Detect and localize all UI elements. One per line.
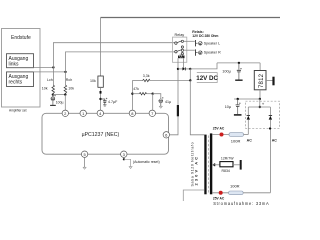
resistor 10k Rch (zigzag)	[64, 85, 67, 93]
node J junction dot	[189, 79, 191, 81]
box Endstufe (amplifier)	[2, 29, 41, 108]
wire secondary top to 100R	[212, 134, 229, 136]
relay box	[173, 37, 187, 62]
capacitor 100u left channel (electrolytic)	[51, 95, 56, 105]
junction dot E	[100, 91, 102, 94]
wire node A down to resistor Lch	[52, 67, 54, 85]
svg-text:Speaker L: Speaker L	[204, 41, 220, 45]
connector box Ausgang rechts	[7, 72, 34, 87]
node B junction dot	[64, 71, 66, 73]
transformer T1 secondary bar	[210, 133, 212, 194]
transformer T1 primary bar	[204, 135, 206, 195]
capacitor 10u	[236, 98, 241, 114]
svg-text:10k: 10k	[42, 87, 48, 91]
transformer center tap arrow	[213, 163, 216, 166]
svg-text:12V DC 280 Ohm: 12V DC 280 Ohm	[192, 34, 218, 38]
svg-text:25V AC: 25V AC	[213, 126, 225, 130]
wire tap to resistor 12R	[212, 164, 220, 166]
svg-text:Relay: Relay	[175, 33, 185, 37]
diode D1 (flyback)	[182, 67, 185, 70]
wire D1 to node dot3	[186, 68, 191, 70]
wire node K down to bridge plus node	[259, 99, 261, 107]
svg-text:Lch: Lch	[47, 78, 53, 82]
node K junction dot	[259, 98, 261, 100]
svg-text:10k: 10k	[90, 79, 96, 83]
svg-text:AC: AC	[247, 139, 253, 143]
svg-text:3,3k: 3,3k	[143, 74, 150, 78]
rectifier dashed box	[246, 101, 280, 128]
svg-text:100µ: 100µ	[222, 70, 231, 74]
pin 3	[121, 151, 127, 157]
node C junction dot	[52, 93, 54, 95]
wire top rail from pin4 branch to right edge	[101, 17, 281, 19]
wire node H to capacitor 47u	[153, 94, 161, 100]
ground for 4.7uF	[103, 105, 107, 106]
resistor 100R bottom	[229, 191, 244, 195]
wire regulator bottom to node K	[259, 90, 261, 99]
diode D3 right	[269, 107, 272, 193]
pin 4	[97, 110, 103, 116]
wire 12V rail to regulator	[217, 62, 260, 64]
ground for 10u	[234, 114, 242, 116]
wire resistor to pin 4	[100, 87, 102, 110]
node plus junction dot	[259, 106, 261, 108]
ground arrow (automatic reset)	[129, 167, 132, 169]
svg-text:links: links	[9, 61, 20, 67]
relay coil	[178, 54, 185, 58]
wire Ausgang links to node A	[34, 66, 54, 68]
svg-text:100µ: 100µ	[56, 101, 64, 105]
node dot on dashed edge	[269, 127, 271, 129]
wire pin 3 to automatic reset arrow	[123, 157, 131, 166]
wire regulator right tab	[266, 80, 273, 82]
ground for 100u smoothing	[235, 79, 242, 81]
svg-text:R834: R834	[222, 169, 230, 173]
svg-text:Speaker R: Speaker R	[204, 51, 221, 55]
svg-text:10µ: 10µ	[225, 105, 232, 109]
wire dot3 down to node J	[189, 69, 191, 81]
wire speaker L from relay	[184, 40, 195, 42]
capacitor 47u (electrolytic)	[159, 97, 164, 106]
svg-text:12V DC: 12V DC	[196, 75, 218, 82]
svg-text:AC: AC	[272, 139, 278, 143]
svg-text:(Automatic reset): (Automatic reset)	[133, 160, 160, 164]
node A junction dot	[52, 66, 54, 68]
wire dot1 to diode D1	[178, 68, 182, 70]
box 12V DC label	[197, 73, 217, 83]
svg-text:7812: 7812	[259, 73, 265, 88]
label Relais: 12V DC 280 Ohm	[192, 30, 218, 38]
node 25V AC bottom (red)	[219, 191, 223, 195]
wire node C to node D	[53, 94, 65, 96]
wire node J down to transformer primary	[190, 80, 204, 134]
node 25V AC top (red)	[220, 133, 224, 137]
node D junction dot	[64, 93, 66, 95]
capacitor 100u smoothing	[237, 62, 242, 80]
regulator 7812	[254, 63, 266, 90]
svg-text:12R/7W: 12R/7W	[221, 157, 234, 161]
svg-text:Rch: Rch	[66, 78, 72, 82]
resistor 47k (zigzag)	[132, 93, 152, 95]
wire node K to 10u tap	[234, 98, 260, 100]
wire node A2 down to resistor Rch	[65, 72, 67, 85]
node dot1 under coil	[177, 68, 179, 70]
wire node D to pin 2	[64, 95, 66, 110]
svg-text:100R: 100R	[230, 183, 240, 188]
svg-text:100R: 100R	[231, 138, 241, 143]
relay contact pole 2	[175, 49, 184, 55]
wire bridge top bar	[248, 106, 270, 108]
junction dot G on pin8 riser	[131, 93, 133, 95]
capacitor 4.7uF (electrolytic)	[103, 98, 107, 105]
wire 100R bottom to AC right riser	[243, 192, 270, 194]
wire pin 6 to relay coil riser	[170, 69, 179, 135]
junction dot F	[99, 98, 101, 100]
svg-text:Stromaufnahme: 33mA: Stromaufnahme: 33mA	[213, 201, 269, 206]
wire primary bottom lead	[183, 190, 204, 201]
bold tab mark	[272, 77, 274, 86]
connector box Ausgang links	[7, 54, 34, 68]
node dot3 junction	[189, 68, 191, 70]
wire 100R top to AC left	[244, 134, 249, 136]
transformer core dashed line	[207, 136, 209, 194]
terminal bar	[240, 160, 242, 170]
pin 5	[81, 151, 87, 157]
wire resistor Lch to node C	[52, 93, 54, 94]
wire left channel riser to relay contact 1	[53, 43, 174, 68]
pin 7	[149, 110, 155, 116]
op IC uPC1237 body	[42, 113, 169, 154]
junction dot H above pin 7	[152, 93, 154, 95]
svg-text:230V AC: 230V AC	[194, 155, 199, 186]
wire resistor 12R to terminal	[233, 164, 240, 166]
wire pin4 branch from top rail down	[100, 18, 102, 77]
wire speaker R from relay	[184, 49, 195, 51]
svg-text:Amplifier set: Amplifier set	[9, 109, 27, 113]
svg-text:47k: 47k	[133, 87, 139, 91]
svg-text:Endstufe: Endstufe	[11, 35, 31, 41]
wire pin 8 riser	[131, 81, 133, 111]
wire dot3 to 12V riser corner	[190, 63, 217, 69]
resistor 3.3k (zigzag) on wire to 12V node	[132, 79, 190, 81]
pin 8	[129, 110, 135, 116]
svg-text:41µ: 41µ	[165, 100, 171, 104]
svg-text:+: +	[262, 102, 265, 107]
ground for 100u	[50, 104, 56, 106]
resistor 10k Lch (zigzag)	[52, 85, 55, 93]
wire coil right lead down	[183, 58, 185, 69]
svg-text:Relais:: Relais:	[192, 30, 203, 34]
resistor 10k (box style)	[98, 76, 103, 87]
svg-text:10k: 10k	[68, 87, 74, 91]
resistor 100R top	[229, 133, 244, 137]
pin 2	[62, 110, 68, 116]
terminal speaker R	[196, 49, 203, 55]
terminal speaker L	[196, 40, 203, 46]
ground at pin 5	[83, 157, 86, 169]
svg-text:µPC1237 (NEC): µPC1237 (NEC)	[82, 132, 120, 138]
relay contact pole 1	[175, 40, 184, 48]
resistor 12R/7W	[220, 162, 233, 167]
wire right channel riser to relay contact 2	[66, 52, 175, 72]
wire secondary bottom to 100R bottom	[212, 192, 228, 194]
wire coil left lead down	[177, 58, 179, 69]
pin 1	[80, 110, 86, 116]
wire to capacitor 4.7uF	[101, 99, 105, 101]
svg-text:4.7µF: 4.7µF	[108, 100, 118, 104]
svg-text:rechts: rechts	[9, 80, 23, 86]
wire Ausgang rechts to node B	[34, 71, 66, 73]
diode D2 left	[247, 107, 250, 135]
bold mark on relay riser	[177, 105, 179, 116]
ground for 47u	[159, 106, 162, 108]
pin 6	[163, 132, 169, 138]
wire node H to pin 7	[152, 94, 154, 110]
